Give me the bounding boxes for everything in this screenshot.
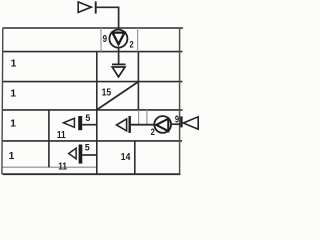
grid vertical V3 solid middle xyxy=(137,52,139,110)
grid vertical V1 valve-box left edge xyxy=(48,110,50,167)
injector valve V11b triangle (row 5 box) xyxy=(69,148,76,159)
svg-text:5: 5 xyxy=(85,113,90,123)
svg-text:15: 15 xyxy=(102,87,112,98)
grid vertical V6 cell-14 right edge xyxy=(134,141,136,174)
svg-text:11: 11 xyxy=(58,161,67,172)
svg-text:2: 2 xyxy=(151,127,155,137)
check valve CV3 seat bar xyxy=(180,116,182,127)
grid vertical V4 faint row4 xyxy=(146,110,148,126)
pipe CV2 to pump P2 xyxy=(131,124,155,126)
tank T1 top bar xyxy=(112,63,126,65)
svg-text:2: 2 xyxy=(130,40,134,50)
pipe pump P2 to CV3 xyxy=(171,123,180,125)
grid row line D xyxy=(3,140,183,142)
svg-text:1: 1 xyxy=(10,89,16,100)
wire from CV0 to pump P1 xyxy=(97,7,119,30)
grid vertical V3 faint row4 xyxy=(138,110,140,126)
svg-text:5: 5 xyxy=(85,142,90,152)
svg-text:1: 1 xyxy=(11,59,17,70)
grid row line C xyxy=(3,109,183,111)
check valve CV2 seat bar xyxy=(129,116,131,133)
svg-text:14: 14 xyxy=(121,152,131,163)
pipe from V11b xyxy=(82,154,97,156)
check valve CV0 triangle (top) xyxy=(78,2,91,13)
pump P2 inner triangle xyxy=(156,119,168,131)
svg-text:1: 1 xyxy=(10,118,16,129)
diagonal link in cell 15 xyxy=(97,82,138,110)
check valve CV0 seat bar xyxy=(95,1,97,13)
grid row line A xyxy=(3,51,183,53)
grid vertical V2a pump cell left (faint) xyxy=(100,28,102,52)
grid vertical V3 pump cell right (faint top) xyxy=(137,28,139,52)
svg-text:1: 1 xyxy=(9,151,15,162)
tank T1 triangle xyxy=(112,67,125,77)
grid faint row line E xyxy=(3,166,98,168)
check valve CV3 triangle xyxy=(183,117,198,129)
pipe from V11a xyxy=(82,124,97,126)
svg-text:9: 9 xyxy=(103,34,108,45)
svg-text:11: 11 xyxy=(57,130,66,141)
injector valve V11b seat bar xyxy=(79,145,83,164)
grid left border xyxy=(1,28,4,174)
injector valve V11a triangle (row 4 box) xyxy=(63,118,74,127)
check valve CV2 triangle (row 4) xyxy=(117,119,127,131)
grid vertical V5 right border xyxy=(179,28,181,174)
pump P2 circle xyxy=(154,116,171,133)
pump P1 circle xyxy=(109,30,127,48)
pump P1 inner triangle xyxy=(113,33,125,45)
grid vertical V2 xyxy=(96,52,98,175)
injector valve V11a seat bar xyxy=(78,116,82,130)
grid row line B xyxy=(3,81,183,83)
grid top border xyxy=(3,27,184,29)
grid bottom border xyxy=(3,173,181,175)
wire pump P1 to tank xyxy=(118,48,120,65)
